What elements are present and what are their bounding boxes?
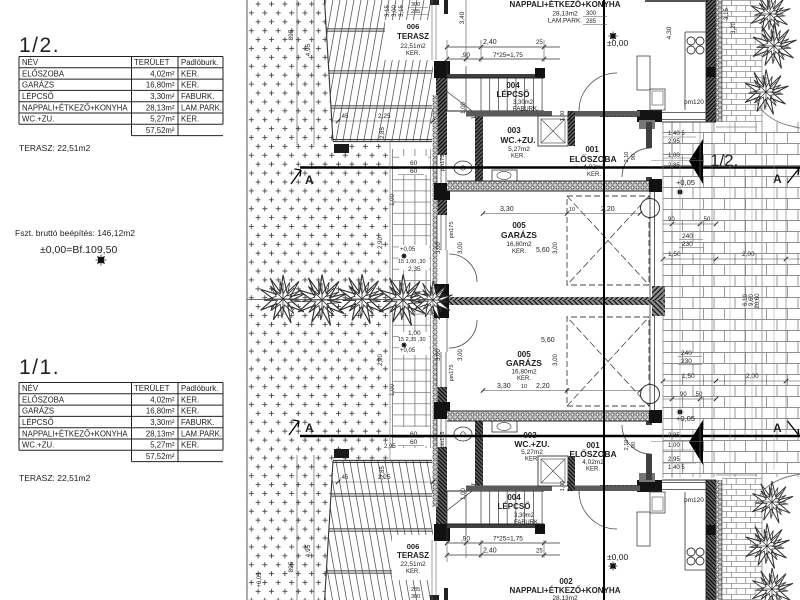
svg-text:pm175: pm175 xyxy=(440,432,446,449)
svg-text:NÉV: NÉV xyxy=(22,384,39,393)
svg-text:KER.: KER. xyxy=(181,115,199,124)
svg-text:FABURK.: FABURK. xyxy=(514,520,540,526)
svg-text:3,40: 3,40 xyxy=(459,11,466,24)
svg-text:3,20: 3,20 xyxy=(731,22,737,34)
svg-text:285: 285 xyxy=(586,19,597,25)
svg-text:25: 25 xyxy=(536,549,543,555)
svg-text:90: 90 xyxy=(631,442,637,448)
svg-text:3,30m²: 3,30m² xyxy=(150,92,175,101)
svg-text:60: 60 xyxy=(410,168,418,175)
svg-text:90: 90 xyxy=(680,392,687,398)
svg-text:A: A xyxy=(773,421,782,435)
svg-text:TERASZ: TERASZ xyxy=(397,551,429,560)
svg-text:57,52m²: 57,52m² xyxy=(146,126,175,135)
svg-text:1/2.: 1/2. xyxy=(19,34,60,57)
svg-text:285: 285 xyxy=(411,587,420,593)
svg-text:300: 300 xyxy=(411,2,420,8)
svg-text:ELŐSZOBA: ELŐSZOBA xyxy=(22,69,65,78)
svg-text:20,60: 20,60 xyxy=(755,293,761,309)
svg-text:KER.: KER. xyxy=(511,154,525,160)
svg-text:KER.: KER. xyxy=(181,81,199,90)
svg-text:KER.: KER. xyxy=(181,395,199,404)
svg-text:pm120: pm120 xyxy=(684,497,704,504)
svg-text:LAM.PARK.: LAM.PARK. xyxy=(181,429,222,438)
svg-text:2,85: 2,85 xyxy=(668,433,680,439)
svg-text:3,15: 3,15 xyxy=(399,5,405,17)
svg-text:5,27m²: 5,27m² xyxy=(150,441,175,450)
svg-text:+0,05: +0,05 xyxy=(400,247,416,253)
svg-text:ELŐSZOBA: ELŐSZOBA xyxy=(569,153,616,164)
svg-text:2,85: 2,85 xyxy=(668,163,680,169)
svg-text:2,25: 2,25 xyxy=(378,113,391,120)
svg-text:3,00: 3,00 xyxy=(553,354,559,366)
svg-text:ELŐSZOBA: ELŐSZOBA xyxy=(22,395,65,404)
svg-text:2,95: 2,95 xyxy=(668,139,680,145)
svg-text:230: 230 xyxy=(681,358,692,365)
svg-text:3,30m²: 3,30m² xyxy=(150,418,175,427)
svg-text:KER.: KER. xyxy=(181,441,199,450)
svg-text:1,50: 1,50 xyxy=(668,251,681,258)
svg-text:TERASZ: TERASZ xyxy=(397,32,429,41)
svg-text:+6,05: +6,05 xyxy=(257,572,263,588)
svg-text:LÉPCSŐ: LÉPCSŐ xyxy=(22,92,54,101)
svg-text:3,30m2: 3,30m2 xyxy=(513,100,534,106)
svg-text:28,13m2: 28,13m2 xyxy=(552,11,578,18)
svg-text:3,00: 3,00 xyxy=(436,349,442,361)
svg-text:005: 005 xyxy=(512,221,526,230)
svg-text:5,27m2: 5,27m2 xyxy=(521,449,543,456)
svg-text:+0,05: +0,05 xyxy=(676,178,695,187)
svg-text:A: A xyxy=(305,173,314,187)
svg-text:895: 895 xyxy=(288,561,295,572)
svg-text:7*25=1,75: 7*25=1,75 xyxy=(493,536,523,543)
svg-text:28,13m2: 28,13m2 xyxy=(552,595,578,600)
svg-text:WC.+ZU.: WC.+ZU. xyxy=(514,439,549,449)
svg-text:KER.: KER. xyxy=(517,376,531,382)
svg-text:10: 10 xyxy=(521,384,527,390)
svg-text:2,00: 2,00 xyxy=(746,373,759,380)
svg-text:LAM.PARK.: LAM.PARK. xyxy=(548,18,582,25)
svg-text:pm120: pm120 xyxy=(684,99,704,106)
svg-text:2,35: 2,35 xyxy=(408,266,421,273)
svg-text:GARÁZS: GARÁZS xyxy=(501,230,537,240)
svg-text:WC.+ZU.: WC.+ZU. xyxy=(22,441,54,450)
svg-text:2,85: 2,85 xyxy=(380,127,386,139)
svg-text:002: 002 xyxy=(559,577,573,586)
svg-text:2,20: 2,20 xyxy=(601,206,615,213)
svg-text:,50: ,50 xyxy=(694,392,703,398)
svg-text:LÉPCSŐ: LÉPCSŐ xyxy=(497,90,530,99)
svg-text:±0,00: ±0,00 xyxy=(607,38,628,48)
svg-text:16,80m2: 16,80m2 xyxy=(511,369,537,376)
svg-text:LAM.PARK.: LAM.PARK. xyxy=(181,103,222,112)
svg-text:15 1,00 ,30: 15 1,00 ,30 xyxy=(398,259,426,265)
svg-text:3,00: 3,00 xyxy=(392,5,398,17)
svg-text:4,02m2: 4,02m2 xyxy=(582,459,604,466)
svg-text:pm175: pm175 xyxy=(449,222,455,239)
svg-text:2,00: 2,00 xyxy=(742,251,755,258)
svg-text:895: 895 xyxy=(288,29,295,40)
svg-text:3,15: 3,15 xyxy=(385,5,391,17)
svg-text:300: 300 xyxy=(411,594,420,600)
svg-text:001: 001 xyxy=(585,145,599,154)
svg-text:KER.: KER. xyxy=(406,51,420,57)
svg-text:60: 60 xyxy=(410,439,418,446)
svg-text:WC.+ZU.: WC.+ZU. xyxy=(500,135,535,145)
svg-text:LÉPCSŐ: LÉPCSŐ xyxy=(498,502,531,511)
svg-text:±0,00=Bf.109,50: ±0,00=Bf.109,50 xyxy=(40,244,117,256)
svg-text:TERASZ: 22,51m2: TERASZ: 22,51m2 xyxy=(19,473,91,483)
svg-text:1,00: 1,00 xyxy=(408,330,421,337)
svg-text:2,20: 2,20 xyxy=(536,383,550,390)
svg-text:NAPPALI+ÉTKEZŐ+KONYHA: NAPPALI+ÉTKEZŐ+KONYHA xyxy=(22,429,128,438)
svg-text:4,30: 4,30 xyxy=(666,26,673,39)
svg-text:1,50: 1,50 xyxy=(682,373,695,380)
svg-text:ELŐSZOBA: ELŐSZOBA xyxy=(569,448,616,459)
svg-text:4,02m²: 4,02m² xyxy=(150,69,175,78)
svg-text:240: 240 xyxy=(681,350,692,357)
svg-text:28,13m²: 28,13m² xyxy=(146,103,175,112)
svg-text:1/2.: 1/2. xyxy=(710,151,738,170)
svg-text:3,00: 3,00 xyxy=(458,349,464,361)
svg-text:±0,00: ±0,00 xyxy=(607,552,628,562)
svg-text:1,00: 1,00 xyxy=(390,194,396,206)
svg-text:WC.+ZU.: WC.+ZU. xyxy=(22,115,54,124)
svg-text:4,02m²: 4,02m² xyxy=(150,395,175,404)
svg-text:TERÜLET: TERÜLET xyxy=(134,58,170,67)
svg-text:2,35: 2,35 xyxy=(567,481,573,492)
svg-text:3,00: 3,00 xyxy=(436,242,442,254)
svg-text:4,02m2: 4,02m2 xyxy=(583,164,605,171)
svg-text:pm175: pm175 xyxy=(449,365,455,382)
svg-text:KER.: KER. xyxy=(586,467,600,473)
svg-text:TERÜLET: TERÜLET xyxy=(134,384,170,393)
svg-text:LÉPCSŐ: LÉPCSŐ xyxy=(22,418,54,427)
svg-text:GARÁZS: GARÁZS xyxy=(22,81,54,90)
svg-text:240: 240 xyxy=(682,233,693,240)
svg-text:FABURK.: FABURK. xyxy=(181,92,214,101)
svg-text:1,00: 1,00 xyxy=(461,488,467,500)
svg-text:1/1.: 1/1. xyxy=(19,356,60,379)
svg-text:25: 25 xyxy=(536,40,543,46)
svg-text:+0,05: +0,05 xyxy=(676,414,695,423)
svg-text:GARÁZS: GARÁZS xyxy=(506,358,542,368)
svg-text:NAPPALI+ÉTKEZŐ+KONYHA: NAPPALI+ÉTKEZŐ+KONYHA xyxy=(510,0,621,9)
svg-text:22,51m2: 22,51m2 xyxy=(400,561,426,568)
svg-text:57,52m²: 57,52m² xyxy=(146,452,175,461)
svg-text:5,60: 5,60 xyxy=(536,247,550,254)
svg-text:2,35: 2,35 xyxy=(567,111,573,122)
svg-text:1,00: 1,00 xyxy=(461,102,467,114)
svg-text:NAPPALI+ÉTKEZŐ+KONYHA: NAPPALI+ÉTKEZŐ+KONYHA xyxy=(510,586,621,595)
svg-text:KER.: KER. xyxy=(525,457,539,463)
svg-text:7*25=1,75: 7*25=1,75 xyxy=(493,52,523,59)
svg-text:60: 60 xyxy=(410,431,418,438)
svg-text:1,00: 1,00 xyxy=(560,111,566,122)
svg-text:Padlóburk.: Padlóburk. xyxy=(181,384,218,393)
svg-text:3,15: 3,15 xyxy=(724,8,730,20)
svg-text:KER.: KER. xyxy=(587,172,601,178)
svg-text:006: 006 xyxy=(407,22,420,31)
svg-text:1,40 5: 1,40 5 xyxy=(668,465,685,471)
svg-text:22,51m2: 22,51m2 xyxy=(400,43,426,50)
svg-text:15 2,35 ,30: 15 2,35 ,30 xyxy=(398,337,426,343)
svg-text:006: 006 xyxy=(407,542,420,551)
svg-text:2,85: 2,85 xyxy=(380,466,386,478)
svg-text:90: 90 xyxy=(631,154,637,160)
svg-text:300: 300 xyxy=(586,11,597,17)
svg-text:1,00: 1,00 xyxy=(560,481,566,492)
svg-text:1,00: 1,00 xyxy=(668,443,680,449)
svg-text:004: 004 xyxy=(507,493,521,502)
svg-text:KER.: KER. xyxy=(181,407,199,416)
svg-text:NÉV: NÉV xyxy=(22,58,39,67)
svg-text:KER.: KER. xyxy=(181,69,199,78)
svg-text:28,13m²: 28,13m² xyxy=(146,429,175,438)
svg-text:3,00: 3,00 xyxy=(458,242,464,254)
svg-text:3,30: 3,30 xyxy=(497,383,511,390)
svg-text:10: 10 xyxy=(569,207,575,213)
svg-text:285: 285 xyxy=(411,9,420,15)
svg-text:1,40 5: 1,40 5 xyxy=(668,131,685,137)
svg-text:4,95: 4,95 xyxy=(305,43,312,56)
svg-text:GARÁZS: GARÁZS xyxy=(22,407,54,416)
svg-text:3,30m2: 3,30m2 xyxy=(514,513,535,519)
svg-text:,45: ,45 xyxy=(340,114,349,120)
svg-text:5,27m2: 5,27m2 xyxy=(508,146,530,153)
svg-text:004: 004 xyxy=(506,81,520,90)
svg-text:2,90: 2,90 xyxy=(378,354,384,366)
svg-text:1,00: 1,00 xyxy=(390,384,396,396)
svg-text:2,10: 2,10 xyxy=(624,152,630,163)
svg-text:,50: ,50 xyxy=(702,217,711,223)
svg-text:90: 90 xyxy=(668,217,675,223)
svg-text:230: 230 xyxy=(682,241,693,248)
svg-text:TERASZ: 22,51m2: TERASZ: 22,51m2 xyxy=(19,143,91,153)
svg-text:3,00: 3,00 xyxy=(553,242,559,254)
svg-text:A: A xyxy=(773,172,782,186)
svg-text:3,30: 3,30 xyxy=(500,206,514,213)
svg-text:2,95: 2,95 xyxy=(668,457,680,463)
svg-text:60: 60 xyxy=(410,160,418,167)
svg-text:NAPPALI+ÉTKEZŐ+KONYHA: NAPPALI+ÉTKEZŐ+KONYHA xyxy=(22,103,128,112)
svg-text:FABURK.: FABURK. xyxy=(513,107,539,113)
svg-text:2,90: 2,90 xyxy=(378,237,384,249)
svg-text:KER.: KER. xyxy=(512,249,526,255)
svg-text:2,40: 2,40 xyxy=(483,548,497,555)
svg-text:5,27m²: 5,27m² xyxy=(150,115,175,124)
svg-text:2,40: 2,40 xyxy=(483,39,497,46)
svg-text:16,80m²: 16,80m² xyxy=(146,81,175,90)
svg-text:A: A xyxy=(305,421,314,435)
svg-text:16,80m2: 16,80m2 xyxy=(506,241,532,248)
svg-text:2,10: 2,10 xyxy=(624,440,630,451)
svg-text:+0,05: +0,05 xyxy=(400,348,416,354)
svg-text:4,95: 4,95 xyxy=(305,544,312,557)
svg-text:pm175: pm175 xyxy=(440,155,446,172)
svg-text:,45: ,45 xyxy=(340,475,349,481)
svg-text:Fszt. bruttó beépítés: 146,: Fszt. bruttó beépítés: 146,12m2 xyxy=(15,228,135,238)
svg-text:FABURK.: FABURK. xyxy=(181,418,214,427)
svg-text:KER.: KER. xyxy=(406,569,420,575)
svg-text:003: 003 xyxy=(507,126,521,135)
svg-text:5,60: 5,60 xyxy=(541,337,555,344)
svg-text:16,80m²: 16,80m² xyxy=(146,407,175,416)
svg-text:Padlóburk.: Padlóburk. xyxy=(181,58,218,67)
